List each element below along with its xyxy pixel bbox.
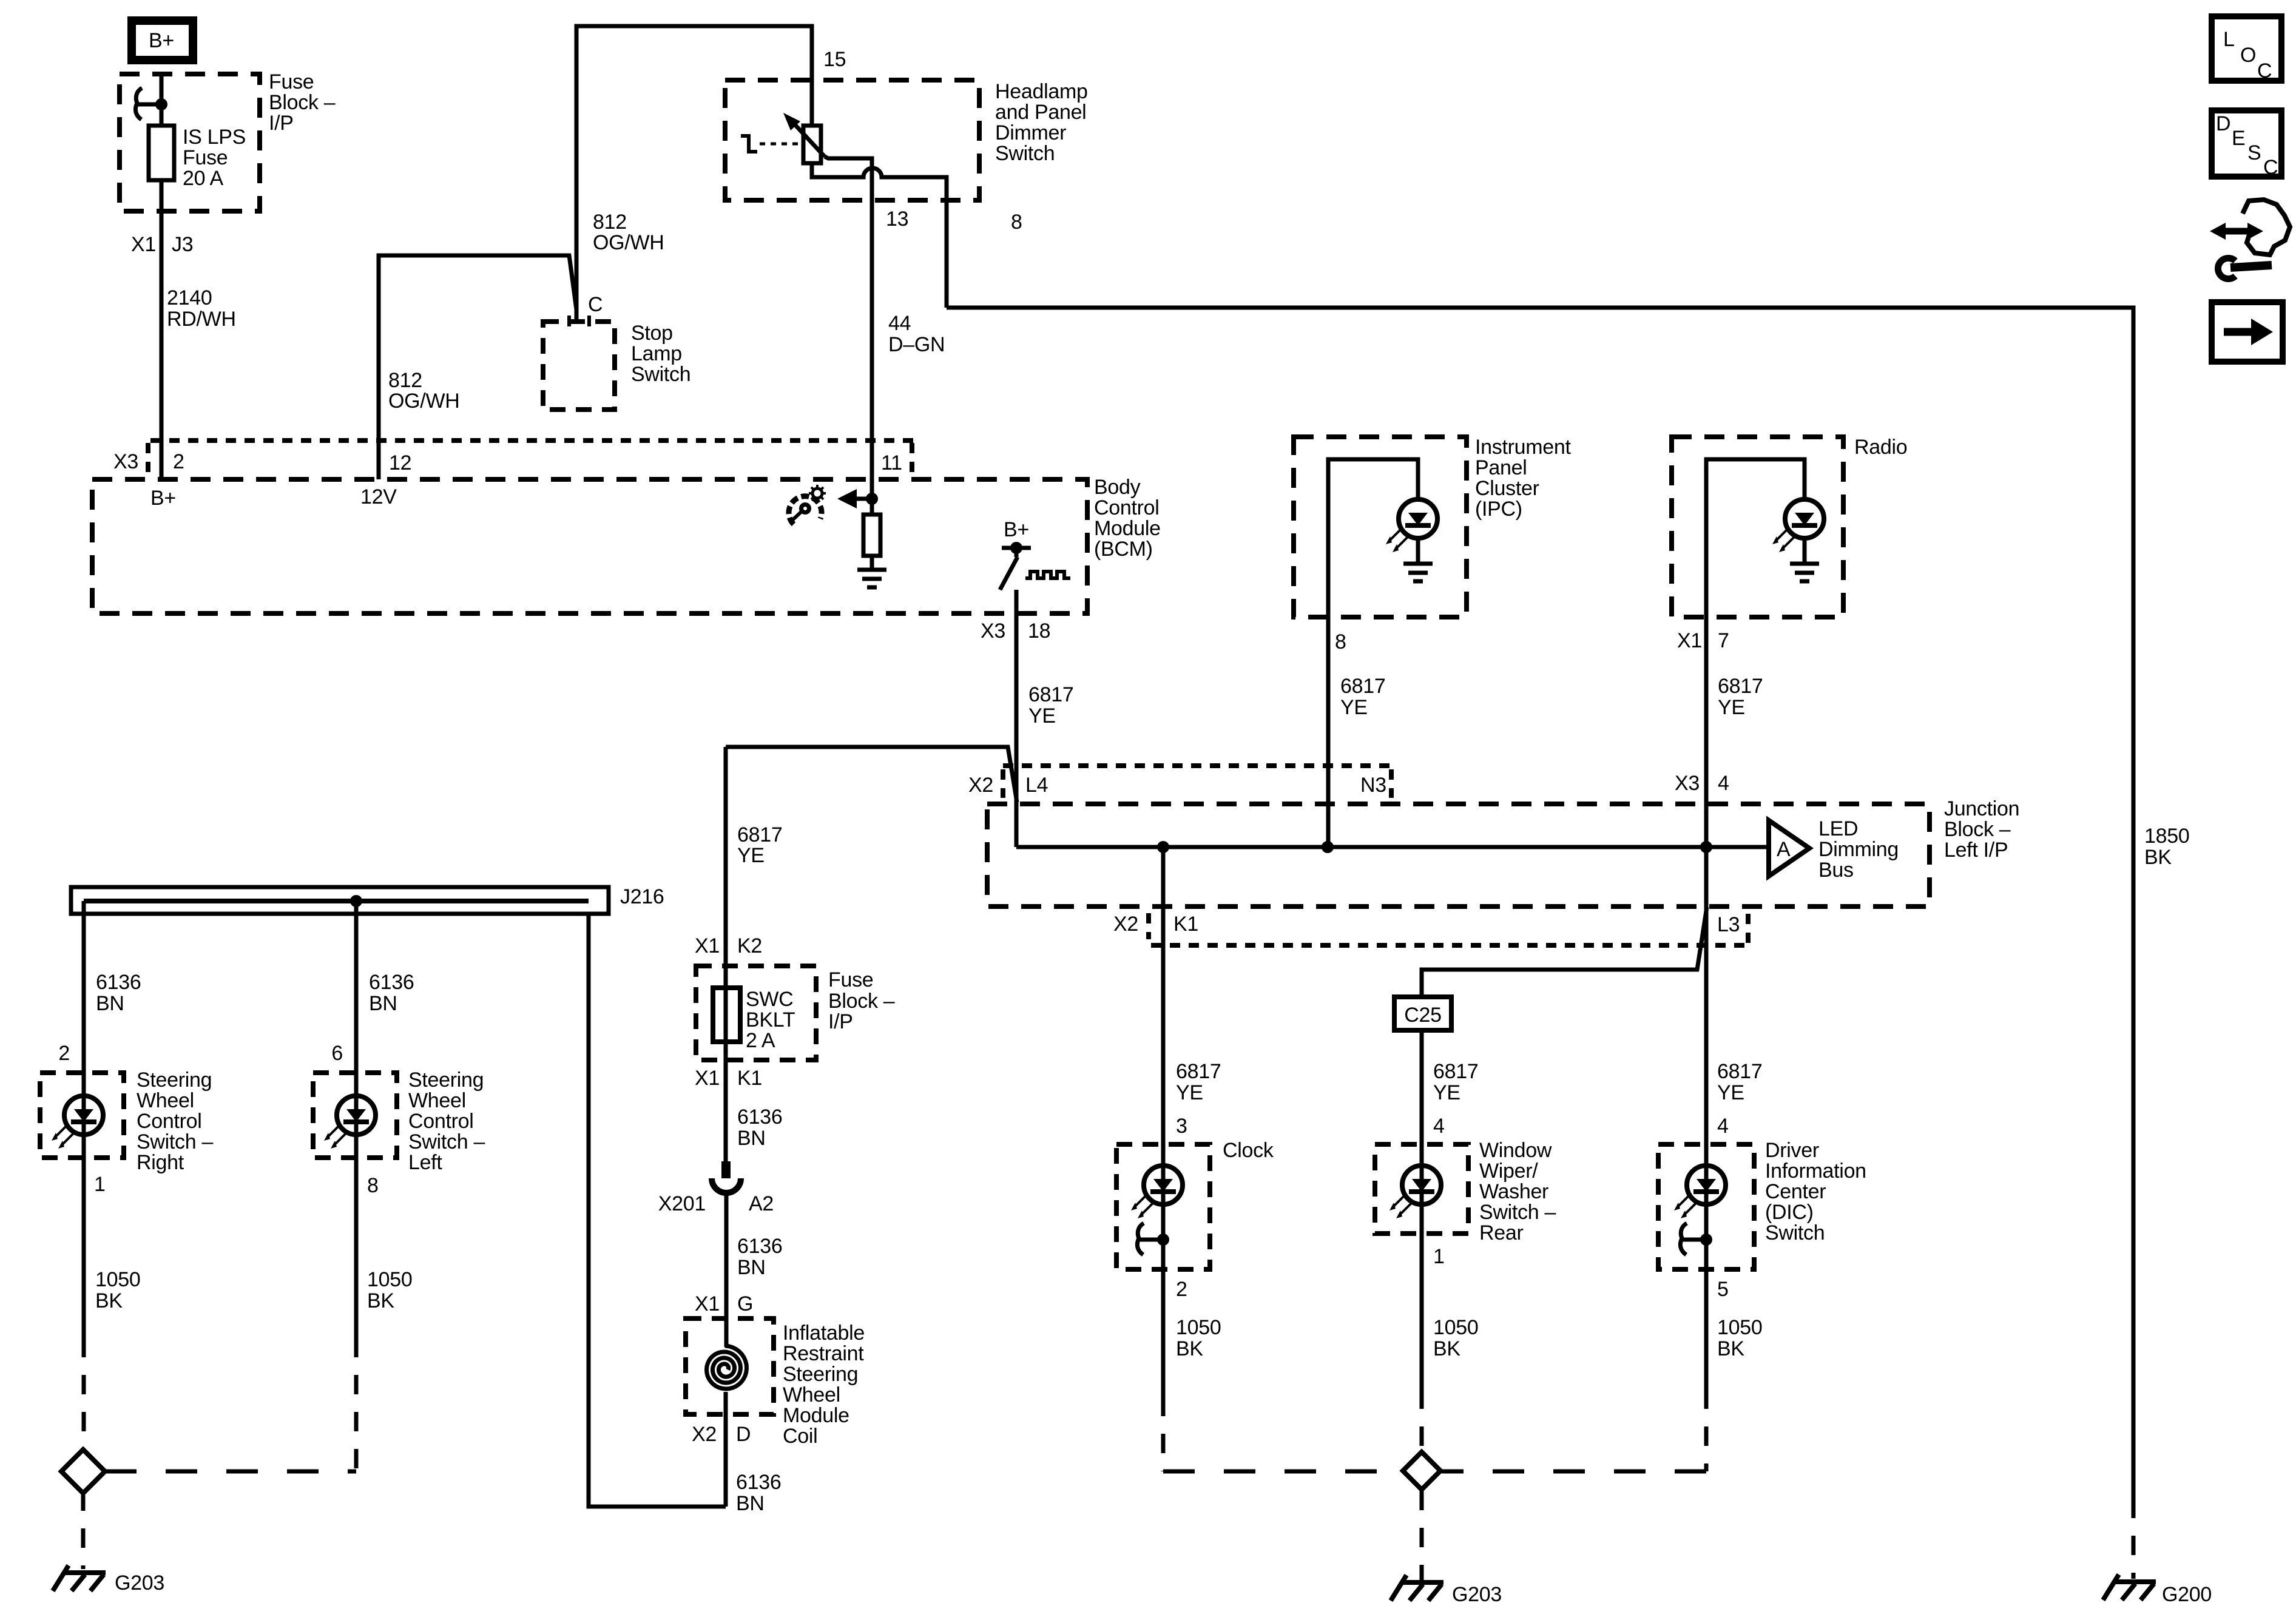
- steering wheel control switch right box: [40, 1073, 124, 1158]
- label 1050 BK right: [95, 1268, 140, 1312]
- clock box: [1116, 1144, 1210, 1269]
- wiper LED: [1389, 1166, 1441, 1218]
- svg-text:Information: Information: [1765, 1160, 1866, 1183]
- radio pins X3 4: [1675, 772, 1729, 795]
- LOC icon box: [2212, 16, 2281, 83]
- label 6817 YE bcm: [1028, 683, 1073, 727]
- svg-text:4: 4: [1717, 1115, 1729, 1138]
- junction K1 connector strip: [1149, 913, 1748, 948]
- svg-text:Wheel: Wheel: [783, 1383, 840, 1406]
- steering wheel control switch left box: [313, 1073, 397, 1158]
- svg-text:X1: X1: [695, 1067, 720, 1090]
- wiper dashed drop: [1420, 1389, 1424, 1451]
- label 44 D-GN: [888, 312, 945, 356]
- svg-text:C: C: [2263, 156, 2278, 179]
- label 6136 BN left: [369, 971, 414, 1015]
- label 6817 YE branch: [737, 823, 782, 867]
- svg-text:BKLT: BKLT: [746, 1008, 795, 1031]
- svg-text:6: 6: [331, 1042, 343, 1065]
- svg-text:Steering: Steering: [408, 1068, 484, 1092]
- label 1050 BK left: [367, 1268, 412, 1312]
- svg-text:1050: 1050: [1433, 1316, 1478, 1339]
- svg-text:BK: BK: [1176, 1337, 1203, 1360]
- svg-text:Instrument: Instrument: [1475, 436, 1571, 459]
- svg-text:Steering: Steering: [137, 1068, 212, 1092]
- svg-text:6817: 6817: [1176, 1060, 1221, 1083]
- DIC feed wire: [1704, 847, 1709, 1269]
- svg-text:4: 4: [1433, 1115, 1445, 1138]
- svg-text:D–GN: D–GN: [888, 333, 945, 356]
- svg-text:X1: X1: [695, 1292, 720, 1315]
- svg-text:6817: 6817: [737, 823, 782, 846]
- svg-text:Block –: Block –: [269, 91, 336, 114]
- svg-text:C25: C25: [1404, 1004, 1441, 1027]
- right steering wheel column wire: [82, 901, 86, 1073]
- DIC tap: [1680, 1223, 1712, 1255]
- LED dimming bus wire: [1016, 845, 1769, 849]
- DIC ground wire: [1704, 1269, 1709, 1389]
- arrow into dimmer icon: [837, 489, 872, 508]
- DIC dashed drop: [1704, 1389, 1709, 1471]
- svg-text:YE: YE: [1176, 1081, 1203, 1104]
- svg-text:1050: 1050: [1717, 1316, 1762, 1339]
- battery feed B+ box: [132, 21, 193, 60]
- body control module box: [92, 479, 1087, 613]
- svg-text:Fuse: Fuse: [269, 70, 314, 93]
- left col ground wire: [354, 1158, 359, 1338]
- svg-text:X1: X1: [131, 233, 156, 256]
- svg-text:C: C: [2257, 59, 2272, 83]
- pot low side wire with hump to pin 8: [812, 163, 947, 308]
- svg-text:K1: K1: [737, 1067, 762, 1090]
- svg-text:J216: J216: [620, 885, 664, 908]
- svg-text:YE: YE: [1717, 1081, 1744, 1104]
- label 1850 BK: [2144, 825, 2189, 869]
- svg-text:5: 5: [1717, 1278, 1729, 1301]
- svg-text:YE: YE: [1340, 696, 1368, 719]
- svg-text:I/P: I/P: [828, 1010, 853, 1033]
- label coil: [783, 1322, 865, 1448]
- svg-text:L3: L3: [1717, 913, 1740, 936]
- label 1050 BK dic: [1717, 1316, 1762, 1360]
- svg-text:Switch –: Switch –: [1479, 1201, 1556, 1224]
- svg-text:6817: 6817: [1718, 675, 1763, 698]
- svg-text:15: 15: [823, 48, 846, 71]
- BCM output switch: [1000, 542, 1031, 590]
- label 6136 BN fuse out: [737, 1106, 782, 1150]
- DESC icon box: [2212, 110, 2281, 179]
- radio internal wire: [1706, 459, 1805, 617]
- svg-text:2: 2: [173, 450, 184, 473]
- wire 812 to stop lamp switch: [379, 255, 576, 479]
- potentiometer in dimmer switch: [803, 126, 821, 163]
- SWC right wire through box: [82, 1073, 86, 1158]
- svg-text:11: 11: [881, 451, 902, 474]
- svg-text:Right: Right: [137, 1151, 184, 1174]
- svg-text:Left: Left: [408, 1151, 442, 1174]
- pins X1 K1: [695, 1067, 762, 1090]
- svg-text:Lamp: Lamp: [631, 342, 682, 365]
- ground G203 left: [53, 1565, 164, 1595]
- svg-text:Coil: Coil: [783, 1425, 817, 1448]
- svg-text:6817: 6817: [1028, 683, 1073, 706]
- instrument panel cluster box: [1294, 437, 1467, 617]
- svg-text:A: A: [1777, 838, 1791, 861]
- label Headlamp and Panel Dimmer Switch: [995, 80, 1088, 165]
- svg-text:7: 7: [1718, 629, 1729, 652]
- svg-text:2140: 2140: [167, 286, 212, 309]
- svg-text:(IPC): (IPC): [1475, 498, 1522, 521]
- svg-text:K1: K1: [1173, 913, 1198, 936]
- svg-text:12V: 12V: [360, 485, 397, 508]
- label Junction Block - Left I/P: [1944, 797, 2019, 862]
- svg-text:C: C: [588, 293, 603, 316]
- radio ground: [1790, 564, 1819, 581]
- pin labels X3 2 12 11: [113, 450, 902, 474]
- svg-text:OG/WH: OG/WH: [593, 231, 664, 254]
- svg-text:1050: 1050: [95, 1268, 140, 1291]
- IPC LED: [1386, 499, 1437, 552]
- PWM waveform glyph: [1025, 572, 1070, 578]
- svg-text:8: 8: [1335, 630, 1346, 653]
- svg-text:Switch: Switch: [631, 363, 690, 386]
- SWC left wire through box: [354, 1073, 359, 1158]
- SWC BKLT fuse column wire: [724, 747, 728, 1165]
- right col dashed drop: [82, 1338, 86, 1451]
- svg-text:1050: 1050: [367, 1268, 412, 1291]
- svg-text:20 A: 20 A: [183, 167, 223, 190]
- svg-text:OG/WH: OG/WH: [388, 390, 459, 413]
- label Window Wiper/Washer Switch - Rear: [1479, 1139, 1556, 1244]
- DIC LED: [1674, 1166, 1726, 1218]
- splice diamond left: [61, 1450, 105, 1493]
- connector ticks at C: [569, 316, 589, 326]
- svg-text:N3: N3: [1360, 774, 1386, 797]
- svg-text:1050: 1050: [1176, 1316, 1221, 1339]
- label Stop Lamp Switch: [631, 322, 690, 386]
- svg-text:(BCM): (BCM): [1094, 538, 1153, 561]
- svg-text:Wheel: Wheel: [408, 1089, 466, 1112]
- svg-text:Body: Body: [1094, 476, 1141, 499]
- svg-text:Headlamp: Headlamp: [995, 80, 1088, 103]
- wire 812 OG/WH dimmer feed: top run: [576, 26, 812, 320]
- svg-text:X3: X3: [113, 450, 138, 473]
- svg-text:Switch –: Switch –: [137, 1130, 213, 1153]
- BCM X3 connector strip: [148, 441, 914, 478]
- svg-text:BN: BN: [736, 1492, 765, 1515]
- svg-text:RD/WH: RD/WH: [167, 308, 236, 331]
- svg-text:Inflatable: Inflatable: [783, 1322, 865, 1345]
- node dot IPC feed: [1322, 841, 1334, 853]
- connector X201 A2: [658, 1161, 774, 1215]
- switch glyph in dimmer: [741, 136, 757, 152]
- svg-text:Junction: Junction: [1944, 797, 2019, 820]
- dimmer gauge icon: [789, 485, 826, 524]
- wire pin 11 into BCM: [870, 479, 874, 515]
- svg-text:Fuse: Fuse: [828, 968, 873, 991]
- svg-text:Driver: Driver: [1765, 1139, 1819, 1162]
- labels 6817 YE clock col: [1176, 1060, 1221, 1104]
- label Body Control Module (BCM): [1094, 476, 1161, 561]
- svg-text:BN: BN: [737, 1256, 766, 1279]
- radio LED: [1772, 499, 1824, 552]
- svg-text:Clock: Clock: [1223, 1139, 1274, 1162]
- labels X2 K1 L3: [1113, 913, 1740, 936]
- wire pin8 to right side 1850 BK: [947, 308, 2133, 1499]
- svg-text:812: 812: [388, 369, 422, 392]
- svg-text:2: 2: [1176, 1278, 1187, 1301]
- svg-text:Control: Control: [408, 1110, 474, 1133]
- svg-text:Dimmer: Dimmer: [995, 121, 1066, 144]
- svg-text:X3: X3: [1675, 772, 1700, 795]
- connector C25: [1394, 997, 1451, 1030]
- svg-text:X1: X1: [695, 934, 720, 957]
- node dot radio feed: [1700, 841, 1712, 853]
- headlamp and panel dimmer switch box: [725, 80, 979, 200]
- svg-text:Bus: Bus: [1818, 859, 1854, 882]
- svg-text:6136: 6136: [96, 971, 141, 994]
- wire C25 to wiper switch: [1420, 1030, 1424, 1234]
- svg-text:L: L: [2223, 28, 2235, 51]
- svg-text:Wheel: Wheel: [137, 1089, 194, 1112]
- linkage dashed line: [760, 143, 801, 146]
- window wiper washer switch box: [1375, 1144, 1468, 1234]
- label Fuse Block - I/P 2: [828, 968, 895, 1033]
- svg-text:E: E: [2232, 127, 2245, 150]
- svg-text:Control: Control: [1094, 496, 1160, 519]
- svg-text:BN: BN: [737, 1127, 766, 1150]
- svg-text:Panel: Panel: [1475, 456, 1527, 479]
- SWC right LED: [52, 1096, 103, 1149]
- svg-text:Switch –: Switch –: [408, 1130, 485, 1153]
- resistor in BCM: [863, 515, 880, 556]
- svg-text:1: 1: [94, 1173, 106, 1196]
- svg-text:Switch: Switch: [995, 142, 1055, 165]
- svg-text:44: 44: [888, 312, 911, 335]
- bus tap hook in fuse block: [135, 88, 167, 120]
- labels 6817 YE dic col: [1717, 1060, 1762, 1104]
- svg-text:BK: BK: [367, 1289, 394, 1312]
- pins X2 D: [692, 1423, 751, 1446]
- svg-text:D: D: [2216, 112, 2230, 135]
- right arrow icon box: [2212, 302, 2283, 362]
- svg-text:Fuse: Fuse: [183, 146, 228, 169]
- svg-text:O: O: [2240, 44, 2256, 67]
- wire coil down: [724, 1392, 728, 1507]
- svg-text:G203: G203: [1452, 1583, 1502, 1606]
- inflatable restraint coil box: [686, 1318, 774, 1414]
- svg-text:IS LPS: IS LPS: [183, 126, 246, 149]
- svg-text:BK: BK: [95, 1289, 123, 1312]
- label 1050 BK clock: [1176, 1316, 1221, 1360]
- wire B+ to fuse: [160, 73, 164, 126]
- svg-text:YE: YE: [1433, 1081, 1460, 1104]
- svg-text:YE: YE: [1028, 704, 1056, 727]
- svg-text:Dimming: Dimming: [1818, 838, 1899, 861]
- J216 splice pack: [71, 885, 664, 914]
- svg-text:Block –: Block –: [1944, 818, 2011, 841]
- svg-text:X1: X1: [1677, 629, 1702, 652]
- svg-text:BN: BN: [96, 992, 124, 1015]
- svg-text:8: 8: [367, 1174, 379, 1197]
- left col dashed drop: [354, 1338, 359, 1471]
- svg-text:X2: X2: [968, 774, 993, 797]
- svg-text:SWC: SWC: [746, 988, 793, 1011]
- svg-text:YE: YE: [737, 844, 765, 867]
- label SWC left: [408, 1068, 485, 1174]
- svg-text:Module: Module: [783, 1404, 849, 1427]
- fuse IS LPS 20A: [149, 126, 246, 190]
- radio wire down: [1704, 617, 1709, 847]
- svg-text:S: S: [2247, 141, 2261, 164]
- right col ground wire: [82, 1158, 86, 1338]
- svg-text:G203: G203: [115, 1571, 164, 1595]
- labels 6817 YE wiper col: [1433, 1060, 1478, 1104]
- ground G203 middle: [1391, 1575, 1502, 1606]
- svg-text:18: 18: [1028, 619, 1050, 643]
- svg-text:6136: 6136: [736, 1471, 781, 1494]
- radio pins X1 7: [1677, 629, 1729, 652]
- svg-text:6817: 6817: [1717, 1060, 1762, 1083]
- wire 2140 RD/WH fuse to BCM: [160, 180, 164, 479]
- driver information center switch box: [1658, 1144, 1754, 1269]
- svg-text:6136: 6136: [737, 1235, 782, 1258]
- svg-text:(DIC): (DIC): [1765, 1201, 1814, 1224]
- svg-text:G200: G200: [2162, 1583, 2212, 1606]
- fuse block I/P dashed box: [120, 74, 260, 211]
- svg-text:13: 13: [886, 208, 908, 231]
- svg-text:8: 8: [1011, 211, 1022, 234]
- LED dimming bus triangle A: [1769, 820, 1809, 876]
- label SWC right: [137, 1068, 213, 1174]
- svg-text:Module: Module: [1094, 517, 1161, 540]
- label LED Dimming Bus: [1818, 817, 1899, 882]
- clock tap: [1137, 1223, 1169, 1255]
- svg-text:812: 812: [593, 211, 627, 234]
- label 6136 BN right: [96, 971, 141, 1015]
- svg-text:4: 4: [1718, 772, 1729, 795]
- IPC ground: [1403, 564, 1433, 581]
- svg-text:Restraint: Restraint: [783, 1342, 864, 1365]
- stop lamp switch box: [543, 322, 615, 410]
- svg-text:A2: A2: [749, 1192, 774, 1215]
- label 6817 YE ipc: [1340, 675, 1385, 719]
- label 1050 BK wiper: [1433, 1316, 1478, 1360]
- svg-text:6136: 6136: [737, 1106, 782, 1129]
- wiper output wire to pin 13: [825, 157, 872, 479]
- svg-text:Wiper/: Wiper/: [1479, 1160, 1538, 1183]
- label IPC: [1475, 436, 1571, 521]
- radio box: [1672, 437, 1843, 617]
- svg-text:L4: L4: [1025, 774, 1048, 797]
- svg-text:Block –: Block –: [828, 990, 895, 1013]
- pins X1 G: [695, 1292, 753, 1315]
- fuse SWC BKLT 2A: [713, 988, 795, 1052]
- svg-text:3: 3: [1176, 1115, 1187, 1138]
- pins X3 18: [981, 619, 1050, 643]
- svg-text:6136: 6136: [369, 971, 414, 994]
- IPC led to ground wire: [1416, 538, 1420, 564]
- svg-text:12: 12: [389, 451, 411, 474]
- svg-text:Window: Window: [1479, 1139, 1552, 1162]
- svg-text:J3: J3: [172, 233, 193, 256]
- svg-text:Cluster: Cluster: [1475, 477, 1539, 500]
- label DIC switch: [1765, 1139, 1866, 1244]
- label 6136 BN bottom: [736, 1471, 781, 1515]
- svg-text:B+: B+: [150, 487, 176, 510]
- label 6136 BN mid: [737, 1235, 782, 1279]
- coil spiral: [707, 1346, 747, 1389]
- svg-text:6817: 6817: [1340, 675, 1385, 698]
- label 6817 YE radio: [1718, 675, 1763, 719]
- svg-text:K2: K2: [737, 934, 762, 957]
- clock dashed drop: [1161, 1397, 1166, 1471]
- svg-text:Left I/P: Left I/P: [1944, 839, 2008, 862]
- node dot clock feed: [1157, 841, 1169, 853]
- return wire to J216: [589, 916, 726, 1507]
- wire resistor to ground: [870, 556, 874, 570]
- svg-text:Switch: Switch: [1765, 1221, 1825, 1244]
- wire BCM 18 output: [1015, 590, 1019, 847]
- left steering wheel column wire: [354, 901, 359, 1073]
- clock LED: [1131, 1166, 1183, 1218]
- IPC wire down to junction: [1326, 617, 1331, 847]
- wiper ground wire: [1420, 1234, 1424, 1389]
- clock ground wire: [1161, 1269, 1166, 1397]
- svg-text:X2: X2: [1113, 913, 1138, 936]
- svg-text:1850: 1850: [2144, 825, 2189, 848]
- label 2140 RD/WH: [167, 286, 236, 331]
- pins X1 K2: [695, 934, 762, 957]
- svg-text:G: G: [737, 1292, 753, 1315]
- label 812 OG/WH lower: [388, 369, 459, 413]
- label Fuse Block - I/P: [269, 70, 336, 135]
- junction X2 connector strip: [1003, 766, 1396, 798]
- SWC left LED: [324, 1096, 376, 1149]
- labels X2 L4 N3: [968, 774, 1386, 797]
- svg-text:Rear: Rear: [1479, 1221, 1524, 1244]
- svg-text:Stop: Stop: [631, 322, 673, 345]
- svg-text:YE: YE: [1718, 696, 1745, 719]
- label 812 OG/WH upper: [593, 211, 664, 254]
- svg-text:1: 1: [1433, 1245, 1445, 1268]
- clock feed wire: [1161, 847, 1166, 1269]
- dashed drop to left G203: [81, 1491, 86, 1569]
- ground G200: [2103, 1575, 2212, 1606]
- svg-text:Center: Center: [1765, 1180, 1826, 1203]
- svg-text:Steering: Steering: [783, 1363, 858, 1386]
- svg-text:BN: BN: [369, 992, 397, 1015]
- junction dot pin 11: [866, 493, 878, 505]
- svg-text:B+: B+: [1004, 518, 1029, 541]
- svg-text:X201: X201: [658, 1192, 706, 1215]
- svg-text:and Panel: and Panel: [995, 101, 1086, 124]
- svg-text:LED: LED: [1818, 817, 1858, 840]
- svg-text:6817: 6817: [1433, 1060, 1478, 1083]
- branch wire to SWC fuse: [726, 747, 1017, 802]
- svg-text:BK: BK: [1433, 1337, 1460, 1360]
- fuse block I/P box 2: [696, 966, 816, 1060]
- svg-text:BK: BK: [1717, 1337, 1744, 1360]
- wiper feed diagonal from L3: [1422, 907, 1707, 997]
- svg-text:2: 2: [58, 1042, 70, 1065]
- pins X1 J3: [131, 233, 193, 256]
- svg-text:2 A: 2 A: [746, 1029, 775, 1052]
- svg-text:BK: BK: [2144, 846, 2172, 869]
- dashed drop to G200: [2132, 1499, 2136, 1579]
- IPC internal wire: [1328, 459, 1418, 617]
- svg-text:I/P: I/P: [269, 112, 294, 135]
